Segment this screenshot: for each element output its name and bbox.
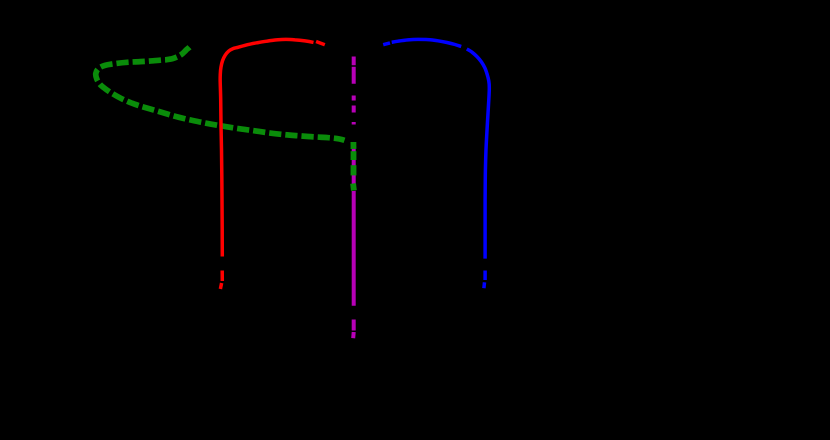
blue trajectory top arc (392, 39, 462, 46)
blue trajectory bottom tail dashes (484, 271, 485, 289)
blue trajectory start dash (383, 43, 390, 45)
red trajectory solid part (220, 39, 313, 256)
magenta under-green section (352, 142, 356, 191)
green thick dashed spiral trajectory (96, 47, 345, 140)
magenta long solid middle section (352, 191, 356, 306)
red trajectory bottom tail dashes (220, 271, 222, 290)
magenta lower dashes (351, 320, 356, 339)
red trajectory end dash at top right (316, 42, 325, 45)
blue trajectory bend and vertical (467, 49, 490, 259)
magenta dashed vertical line, upper dashes (351, 57, 356, 339)
green vertical dashes on nullcline (350, 142, 357, 191)
